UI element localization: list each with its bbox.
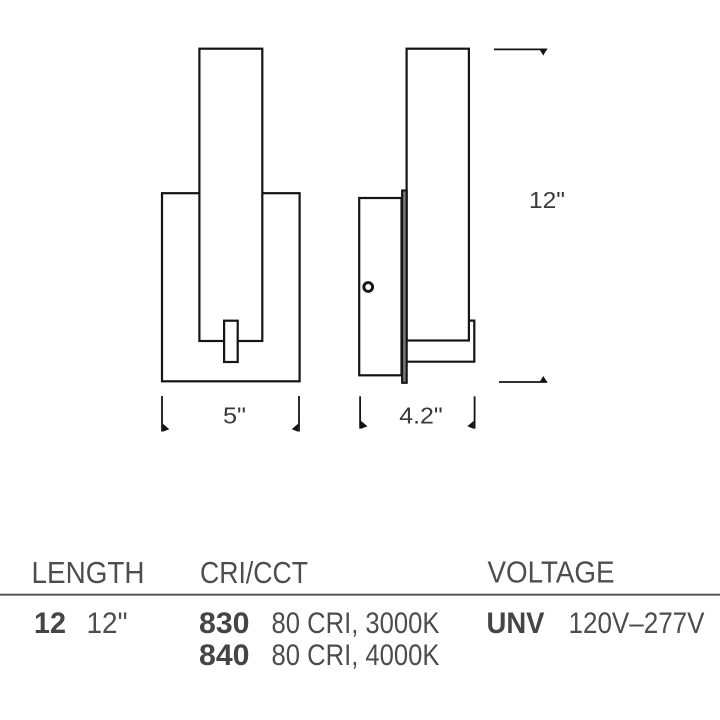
- svg-text:12: 12: [34, 607, 66, 640]
- svg-text:LENGTH: LENGTH: [32, 555, 145, 590]
- svg-text:840: 840: [199, 639, 250, 672]
- svg-text:CRI/CCT: CRI/CCT: [200, 555, 308, 590]
- svg-text:80 CRI, 4000K: 80 CRI, 4000K: [272, 639, 440, 672]
- svg-text:80 CRI, 3000K: 80 CRI, 3000K: [272, 607, 440, 640]
- svg-text:5": 5": [223, 403, 246, 429]
- svg-text:120V–277V: 120V–277V: [569, 607, 705, 640]
- svg-text:4.2": 4.2": [399, 403, 443, 429]
- svg-text:12": 12": [529, 187, 565, 213]
- svg-text:UNV: UNV: [487, 607, 545, 640]
- svg-text:830: 830: [199, 607, 250, 640]
- svg-text:12": 12": [87, 607, 128, 640]
- svg-text:VOLTAGE: VOLTAGE: [488, 555, 615, 590]
